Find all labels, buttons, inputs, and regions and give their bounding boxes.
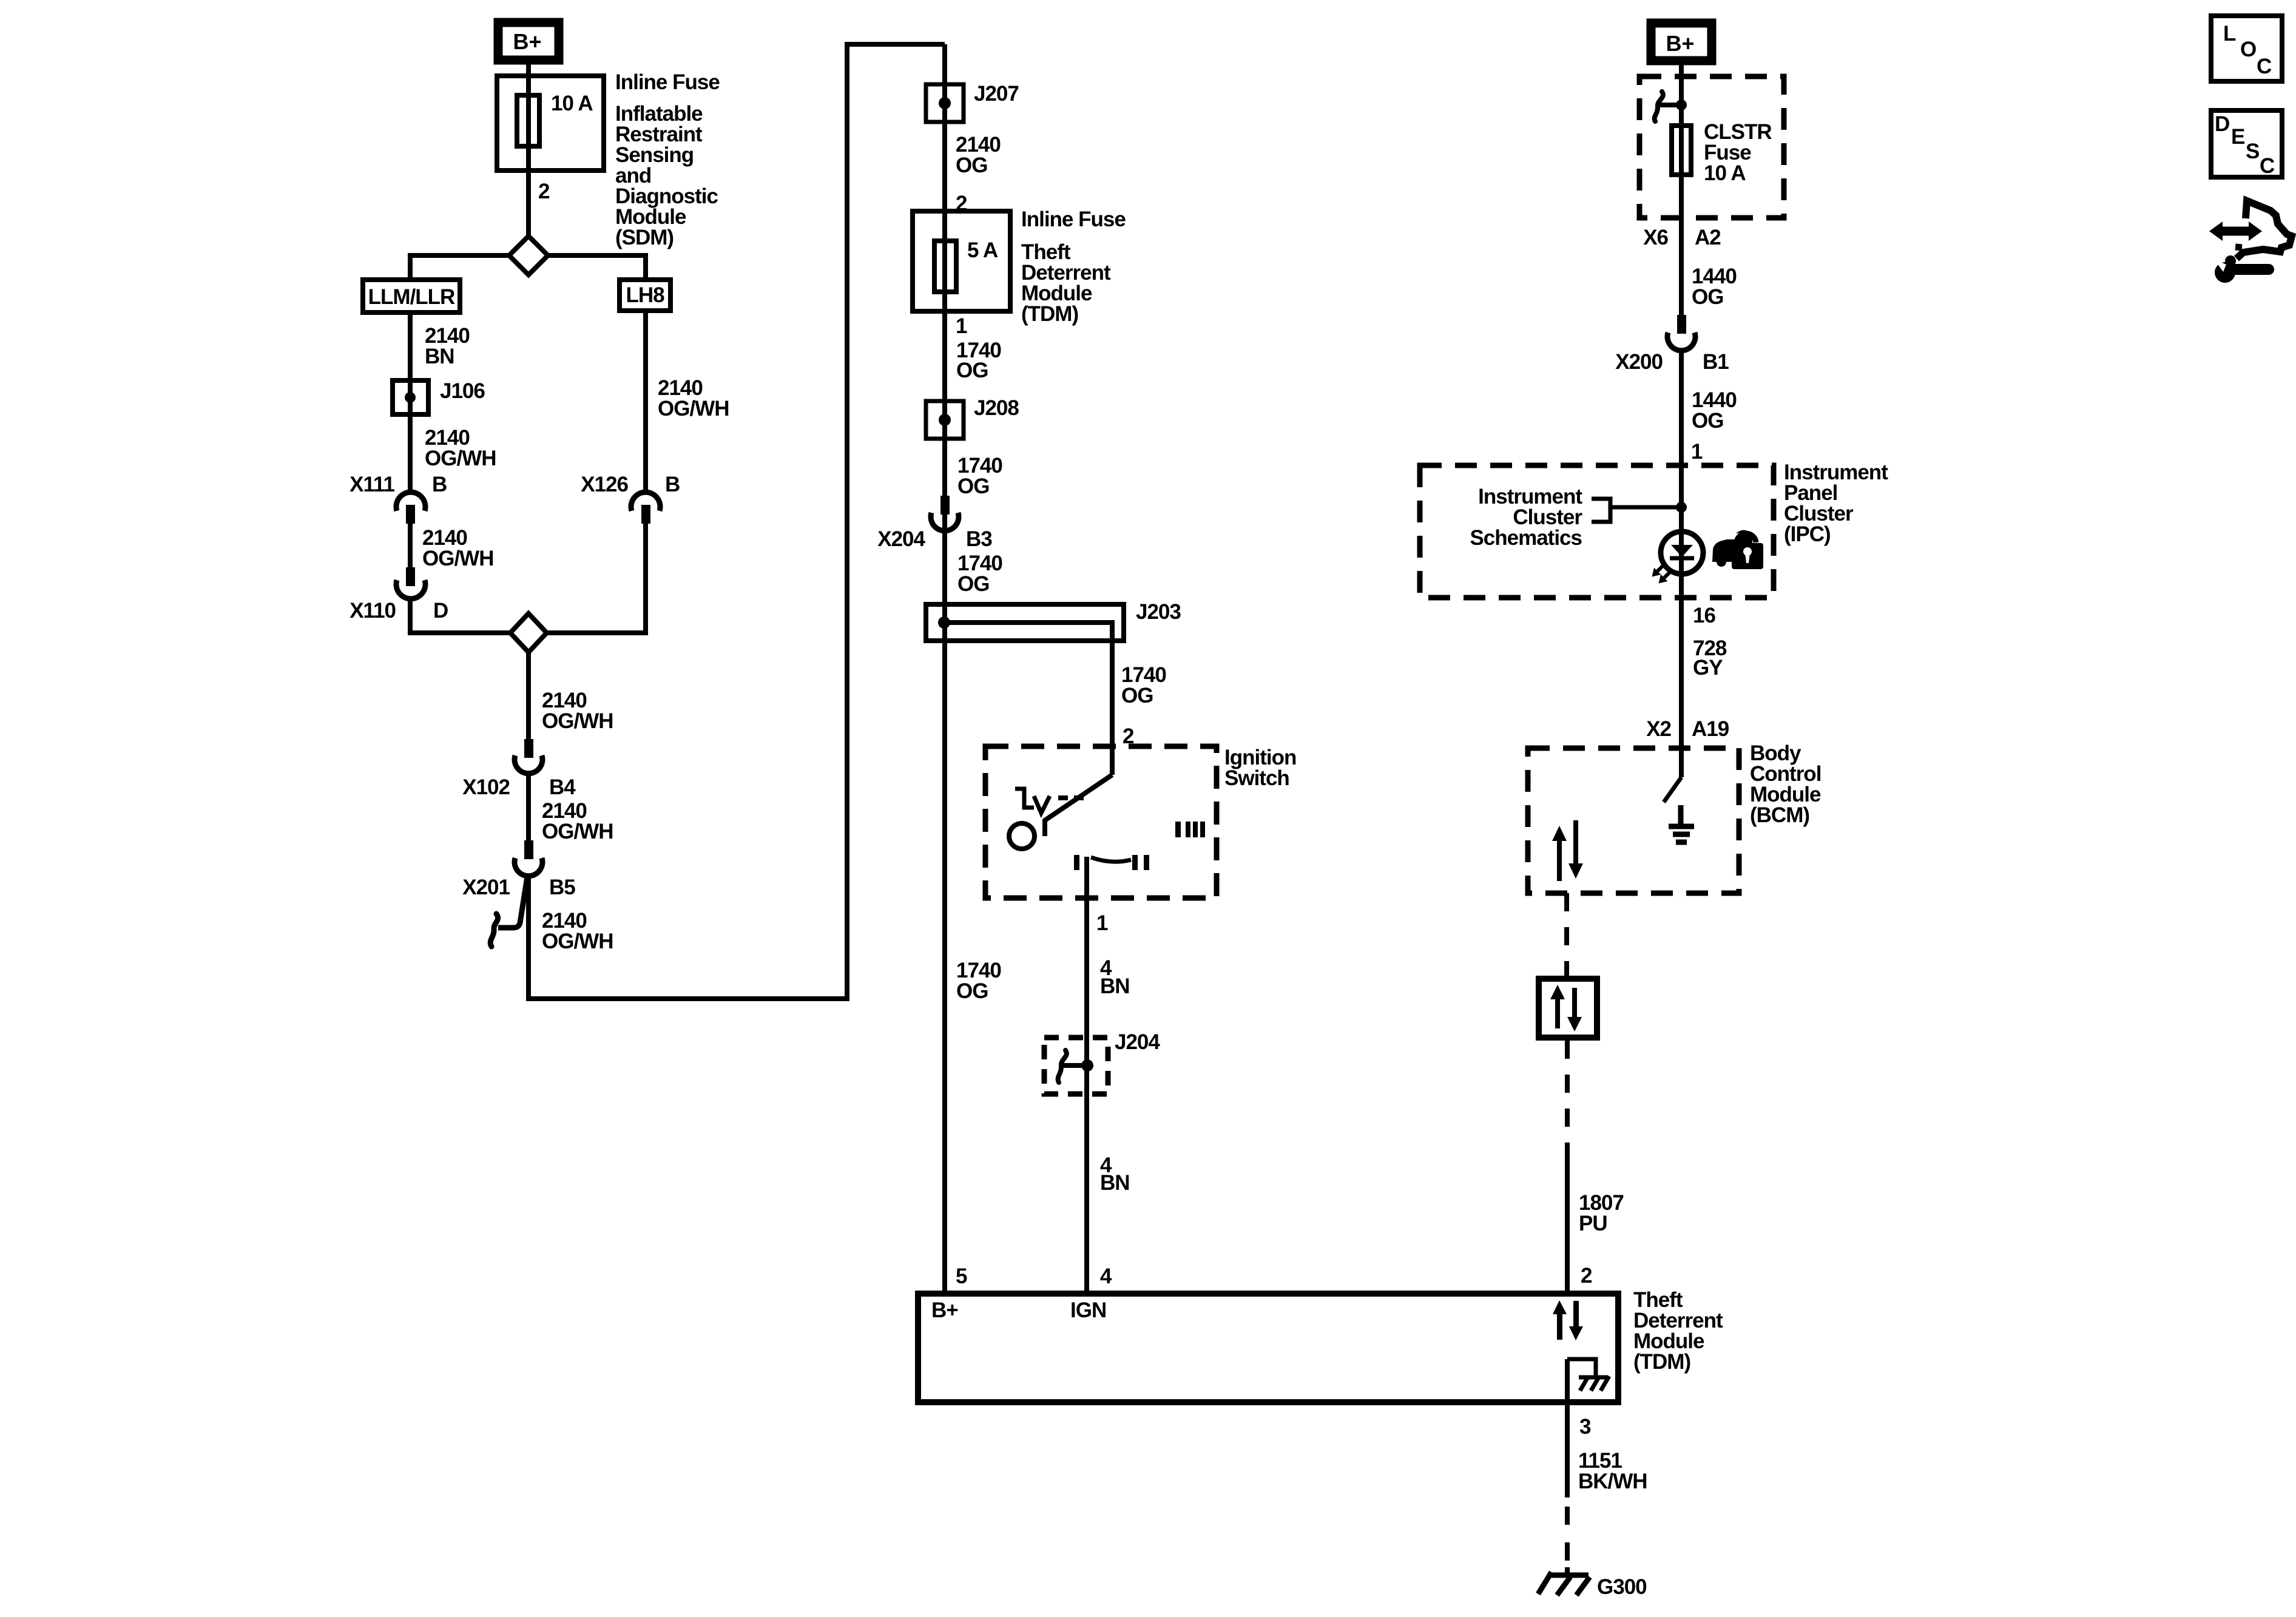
wire solid to TDM pin 2 xyxy=(1565,1154,1570,1291)
wire X110 to S2 xyxy=(410,599,510,633)
svg-text:B1: B1 xyxy=(1703,350,1729,374)
svg-text:X204: X204 xyxy=(877,527,925,551)
svg-text:X111: X111 xyxy=(349,473,394,496)
TDM serial data arrows xyxy=(1553,1300,1583,1340)
pigtail hook at X201 xyxy=(498,877,527,928)
connector box LLM/LLR xyxy=(363,280,460,312)
svg-text:OG/WH: OG/WH xyxy=(658,397,729,420)
ignition switch lever xyxy=(1045,775,1112,836)
svg-text:OG/WH: OG/WH xyxy=(542,820,613,843)
fuse F 10A xyxy=(517,95,539,146)
svg-text:3: 3 xyxy=(1579,1415,1591,1439)
wire S1 to LLM/LLR xyxy=(410,255,510,277)
inline fuse box (TDM feed) xyxy=(913,211,1010,311)
label Instrument Cluster Schematics xyxy=(1470,485,1582,550)
svg-text:J106: J106 xyxy=(440,379,485,403)
svg-text:X201: X201 xyxy=(462,876,510,899)
svg-text:IGN: IGN xyxy=(1070,1298,1106,1322)
wire LH8 down xyxy=(643,313,648,490)
connector X102 pin B4 xyxy=(515,739,542,774)
connector X200 pin B1 xyxy=(1667,315,1695,351)
splice diamond S1 xyxy=(509,236,548,275)
svg-text:BN: BN xyxy=(425,345,454,368)
splice J203 xyxy=(926,604,1124,643)
wire X111 to X110 xyxy=(408,524,413,567)
svg-text:LH8: LH8 xyxy=(626,283,664,307)
dashed wire gateway to TDM xyxy=(1565,1041,1570,1154)
node junction dot xyxy=(1676,502,1687,513)
icon harness connector with wrench xyxy=(2209,201,2292,283)
BCM serial data arrows xyxy=(1552,820,1583,881)
svg-text:B5: B5 xyxy=(549,876,575,899)
svg-text:D: D xyxy=(2215,112,2229,136)
serial data gateway box xyxy=(1539,979,1597,1038)
svg-text:B+: B+ xyxy=(513,29,541,54)
svg-text:5: 5 xyxy=(956,1264,967,1288)
svg-text:L: L xyxy=(2223,22,2236,46)
splice diamond S2 xyxy=(510,613,547,652)
bracket to schematics xyxy=(1592,499,1681,522)
svg-text:OG: OG xyxy=(1692,285,1723,309)
svg-text:S: S xyxy=(2246,140,2259,163)
wire B+ through CLSTR fuse xyxy=(1679,64,1684,316)
svg-text:D: D xyxy=(433,599,448,623)
svg-text:4: 4 xyxy=(1100,1264,1112,1288)
ignition position marks I III xyxy=(1175,822,1205,837)
svg-text:1: 1 xyxy=(956,314,967,338)
wire X126 to S2 xyxy=(547,524,646,633)
svg-text:BN: BN xyxy=(1100,1171,1130,1195)
label Instrument Panel Cluster (IPC) xyxy=(1784,461,1888,546)
label CLSTR Fuse 10 A xyxy=(1704,120,1772,185)
label Theft Deterrent Module (TDM) xyxy=(1633,1288,1723,1374)
svg-text:(TDM): (TDM) xyxy=(1633,1350,1690,1374)
label SDM module xyxy=(615,102,718,249)
svg-text:X110: X110 xyxy=(349,599,396,623)
svg-text:(TDM): (TDM) xyxy=(1021,302,1078,326)
svg-text:Inline Fuse: Inline Fuse xyxy=(615,70,720,94)
svg-text:(BCM): (BCM) xyxy=(1750,803,1809,827)
svg-text:OG/WH: OG/WH xyxy=(422,547,493,570)
svg-text:BN: BN xyxy=(1100,974,1130,998)
svg-text:OG: OG xyxy=(956,359,988,382)
indicator LED xyxy=(1661,532,1703,574)
pigtail hook at fuse feed xyxy=(1655,92,1687,121)
svg-text:2: 2 xyxy=(538,180,550,203)
connector X204 pin B3 xyxy=(931,496,959,531)
label Body Control Module (BCM) xyxy=(1750,741,1821,827)
wire main middle vertical xyxy=(942,44,947,1291)
svg-text:PU: PU xyxy=(1579,1212,1607,1235)
splice J207 xyxy=(926,84,964,122)
wire TDM pin 3 xyxy=(1565,1359,1570,1497)
svg-text:E: E xyxy=(2231,125,2244,149)
LED flash arrows xyxy=(1649,561,1675,587)
connector X111 pin B xyxy=(396,492,425,524)
connector X201 pin B5 xyxy=(515,840,542,876)
svg-text:OG/WH: OG/WH xyxy=(542,930,613,953)
svg-text:B: B xyxy=(665,473,680,496)
svg-text:J208: J208 xyxy=(974,396,1019,420)
svg-text:10 A: 10 A xyxy=(1704,161,1746,185)
wire S1 to LH8 xyxy=(547,255,646,277)
svg-text:X200: X200 xyxy=(1615,350,1663,374)
wire ignition pin 1 to TDM pin 4 xyxy=(1084,857,1089,1291)
wire S2 down xyxy=(526,652,531,740)
splice J208 xyxy=(926,401,964,439)
svg-text:B+: B+ xyxy=(931,1298,958,1322)
BCM switch lever xyxy=(1664,777,1681,802)
splice J106 xyxy=(393,380,428,414)
ignition ACC contact mark xyxy=(1015,789,1084,813)
svg-text:1: 1 xyxy=(1096,911,1108,935)
svg-text:C: C xyxy=(2260,154,2275,178)
svg-text:OG: OG xyxy=(957,474,989,498)
svg-text:(IPC): (IPC) xyxy=(1784,522,1831,546)
svg-text:OG: OG xyxy=(957,572,989,596)
TDM internal ground xyxy=(1567,1359,1609,1391)
fuse CLSTR 10A xyxy=(1672,126,1691,175)
BCM box xyxy=(1528,748,1739,893)
svg-text:X102: X102 xyxy=(462,775,510,799)
dashed wire BCM to gateway xyxy=(1564,893,1569,976)
svg-text:J203: J203 xyxy=(1136,600,1181,624)
battery B+ terminal (right) xyxy=(1651,23,1712,61)
svg-text:OG: OG xyxy=(1692,409,1723,433)
splice J204 xyxy=(1044,1038,1108,1094)
icon car with lock xyxy=(1712,530,1763,569)
svg-text:GY: GY xyxy=(1693,656,1723,680)
connector X110 pin D xyxy=(396,567,425,599)
svg-text:X126: X126 xyxy=(581,473,628,496)
svg-text:Inline Fuse: Inline Fuse xyxy=(1021,208,1126,231)
svg-text:OG/WH: OG/WH xyxy=(542,709,613,733)
inline fuse box (SDM feed) xyxy=(497,76,604,170)
svg-text:Schematics: Schematics xyxy=(1470,526,1582,550)
svg-text:OG/WH: OG/WH xyxy=(425,447,496,470)
CLSTR fuse holder box xyxy=(1639,76,1784,218)
connector box LH8 xyxy=(620,280,670,311)
svg-text:BK/WH: BK/WH xyxy=(1578,1470,1647,1493)
ignition switch box xyxy=(985,746,1217,898)
BCM internal ground xyxy=(1669,805,1694,842)
svg-text:B3: B3 xyxy=(966,527,992,551)
IPC box xyxy=(1420,465,1774,598)
svg-text:5 A: 5 A xyxy=(967,238,998,262)
wire X201 to J207 feed xyxy=(528,44,945,999)
svg-text:J204: J204 xyxy=(1115,1030,1160,1054)
svg-text:O: O xyxy=(2240,38,2256,61)
svg-text:LLM/LLR: LLM/LLR xyxy=(368,285,455,309)
wire B+ to SDM fuse xyxy=(526,64,531,238)
svg-text:OG: OG xyxy=(1121,684,1153,707)
svg-text:A19: A19 xyxy=(1692,717,1729,741)
svg-text:OG: OG xyxy=(956,154,987,177)
svg-text:B4: B4 xyxy=(549,775,576,799)
svg-text:1: 1 xyxy=(1691,440,1703,464)
wire X200 to IPC xyxy=(1679,349,1684,777)
svg-text:OG: OG xyxy=(956,979,988,1003)
fuse F 5A xyxy=(934,241,956,292)
connector X126 pin B xyxy=(631,492,660,524)
wire LLM/LLR down xyxy=(408,315,413,490)
TDM box xyxy=(918,1294,1618,1402)
icon LOC box xyxy=(2211,16,2282,81)
ground G300 xyxy=(1538,1572,1590,1595)
battery B+ terminal (left) xyxy=(498,22,559,60)
svg-text:Switch: Switch xyxy=(1224,766,1289,790)
svg-text:B+: B+ xyxy=(1666,31,1694,56)
svg-text:G300: G300 xyxy=(1597,1575,1647,1599)
svg-text:B: B xyxy=(432,473,447,496)
svg-text:16: 16 xyxy=(1693,604,1715,627)
svg-text:(SDM): (SDM) xyxy=(615,226,674,249)
dashed wire to G300 xyxy=(1565,1507,1570,1525)
label TDM fuse module xyxy=(1021,240,1111,326)
svg-text:A2: A2 xyxy=(1695,226,1721,249)
svg-text:10 A: 10 A xyxy=(551,92,593,115)
svg-text:J207: J207 xyxy=(974,82,1019,106)
ignition pivot circle xyxy=(1009,823,1035,849)
wire J203 to ignition switch xyxy=(1110,641,1115,775)
svg-text:X6: X6 xyxy=(1643,226,1668,249)
wire X102 to X201 xyxy=(526,772,531,842)
svg-text:X2: X2 xyxy=(1646,717,1671,741)
icon DESC box xyxy=(2211,110,2282,178)
ignition position marks I II and contact arc xyxy=(1074,855,1149,870)
svg-text:2: 2 xyxy=(1581,1264,1592,1288)
svg-text:C: C xyxy=(2257,55,2272,78)
